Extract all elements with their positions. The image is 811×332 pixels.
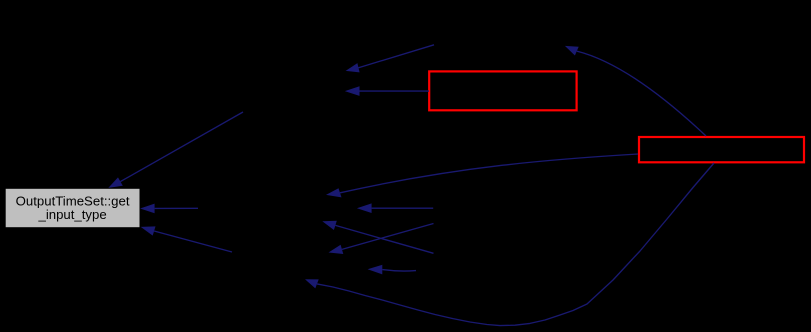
arrowhead P bbox=[140, 204, 155, 214]
edge Q line bbox=[372, 207, 434, 209]
arrowhead B bbox=[322, 221, 337, 230]
arrowhead I bbox=[326, 188, 342, 197]
arrowhead Q bbox=[357, 203, 372, 213]
edges bbox=[120, 45, 714, 326]
edge B line bbox=[335, 225, 433, 253]
arrowhead E bbox=[565, 46, 579, 56]
edge E line bbox=[577, 51, 706, 136]
edge R line bbox=[154, 231, 232, 252]
arrowhead D2 bbox=[345, 86, 360, 96]
edge D2 line bbox=[360, 90, 430, 92]
arrowhead G bbox=[305, 279, 319, 288]
svg-text:OutputTimeSet::get: OutputTimeSet::get bbox=[16, 193, 130, 208]
svg-text:_input_type: _input_type bbox=[37, 207, 106, 222]
node: red box 1 (upper) bbox=[429, 71, 576, 110]
arrowheads bbox=[108, 46, 578, 289]
arrowhead H bbox=[368, 265, 383, 275]
arrowhead D1 bbox=[346, 63, 360, 72]
edge G line bbox=[317, 163, 714, 326]
edge A line bbox=[342, 224, 434, 250]
edge I line bbox=[340, 154, 638, 193]
arrowhead F bbox=[108, 177, 123, 188]
arrowhead A bbox=[329, 245, 344, 254]
edge F line bbox=[120, 112, 243, 182]
node: red box 2 (right) bbox=[639, 137, 804, 162]
node: OutputTimeSet::get_input_type (current node, grey) bbox=[6, 189, 140, 227]
edge D1 line bbox=[359, 45, 435, 68]
edge H line bbox=[382, 270, 416, 271]
arrowhead R bbox=[141, 226, 156, 235]
edge P line bbox=[155, 207, 198, 209]
